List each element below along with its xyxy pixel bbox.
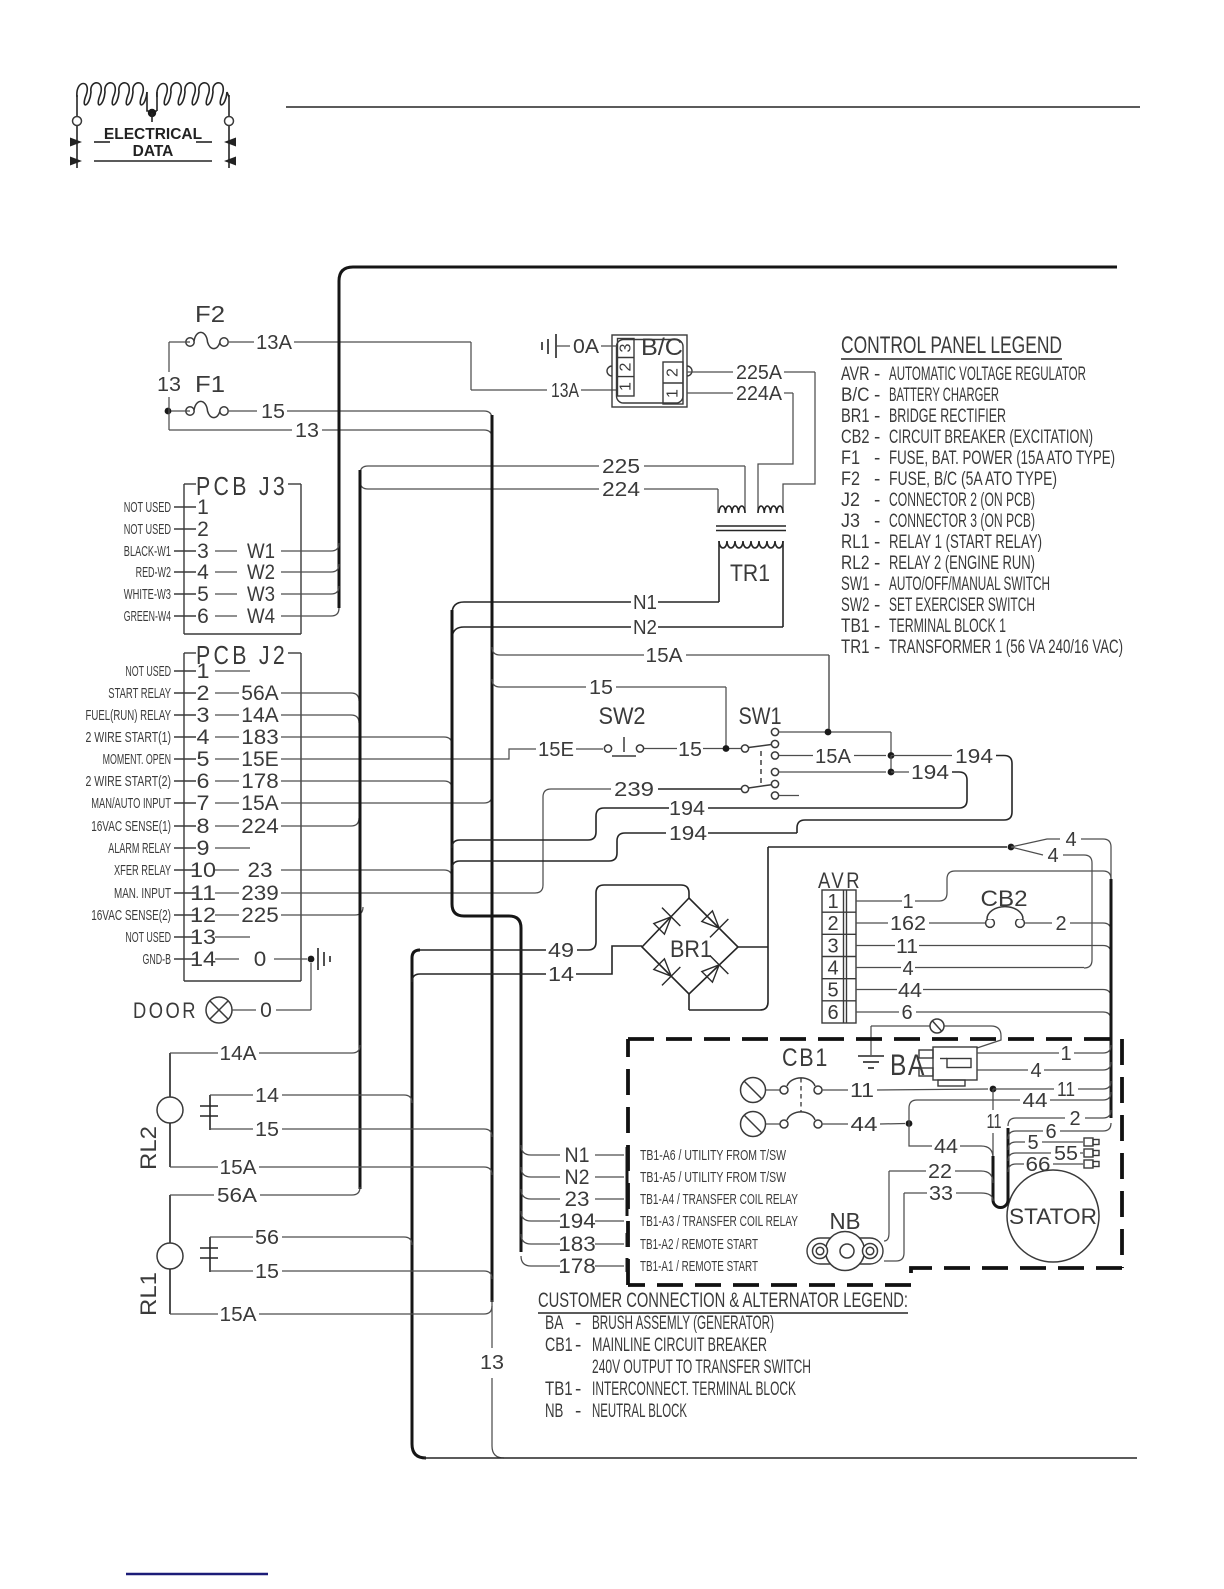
svg-text:12: 12	[190, 904, 216, 927]
svg-text:PCB J3: PCB J3	[196, 471, 288, 501]
svg-text:DOOR: DOOR	[133, 998, 198, 1023]
svg-text:4: 4	[902, 958, 913, 980]
svg-text:15A: 15A	[646, 645, 684, 667]
svg-text:8: 8	[197, 815, 210, 838]
svg-text:BA: BA	[545, 1313, 564, 1334]
svg-text:-: -	[874, 448, 880, 469]
svg-text:225: 225	[602, 456, 640, 478]
svg-text:GND-B: GND-B	[143, 951, 172, 968]
svg-text:DATA: DATA	[133, 143, 174, 160]
svg-text:F1: F1	[841, 448, 860, 469]
svg-text:224A: 224A	[736, 383, 783, 405]
svg-text:14: 14	[548, 964, 574, 986]
svg-text:16VAC SENSE(1): 16VAC SENSE(1)	[91, 818, 171, 835]
svg-text:NOT USED: NOT USED	[124, 499, 171, 516]
svg-text:RL1: RL1	[841, 532, 870, 553]
svg-text:5: 5	[1027, 1132, 1038, 1154]
svg-text:TR1: TR1	[841, 637, 870, 658]
svg-text:239: 239	[614, 779, 654, 801]
svg-text:TB1: TB1	[545, 1379, 573, 1400]
svg-text:INTERCONNECT. TERMINAL BLOCK: INTERCONNECT. TERMINAL BLOCK	[592, 1379, 796, 1400]
svg-text:CONNECTOR 3 (ON PCB): CONNECTOR 3 (ON PCB)	[889, 511, 1035, 532]
svg-text:BATTERY CHARGER: BATTERY CHARGER	[889, 385, 999, 406]
svg-text:SW1: SW1	[841, 574, 870, 595]
svg-text:1: 1	[618, 382, 635, 391]
svg-text:GREEN-W4: GREEN-W4	[124, 608, 171, 625]
svg-text:-: -	[874, 595, 880, 616]
svg-text:CB1: CB1	[782, 1044, 829, 1072]
svg-text:33: 33	[929, 1183, 953, 1205]
svg-text:W4: W4	[247, 605, 275, 628]
svg-text:2 WIRE START(2): 2 WIRE START(2)	[86, 773, 172, 790]
svg-text:FUSE, B/C (5A ATO TYPE): FUSE, B/C (5A ATO TYPE)	[889, 469, 1057, 490]
svg-text:2: 2	[1069, 1108, 1080, 1130]
svg-text:1: 1	[902, 891, 913, 913]
svg-text:194: 194	[669, 798, 705, 820]
svg-text:15: 15	[261, 401, 285, 423]
svg-text:-: -	[874, 427, 880, 448]
svg-text:1: 1	[197, 496, 209, 519]
svg-text:4: 4	[1030, 1060, 1041, 1082]
svg-text:TRANSFORMER 1 (56 VA 240/16 VA: TRANSFORMER 1 (56 VA 240/16 VAC)	[889, 637, 1123, 658]
svg-text:14: 14	[190, 948, 216, 971]
svg-text:CONTROL PANEL LEGEND: CONTROL PANEL LEGEND	[841, 332, 1062, 359]
svg-text:13: 13	[295, 420, 319, 442]
svg-text:BRIDGE RECTIFIER: BRIDGE RECTIFIER	[889, 406, 1006, 427]
svg-text:15A: 15A	[220, 1304, 258, 1326]
svg-text:STATOR: STATOR	[1009, 1204, 1097, 1229]
svg-text:2 WIRE START(1): 2 WIRE START(1)	[86, 729, 172, 746]
svg-text:7: 7	[197, 792, 210, 815]
svg-text:6: 6	[827, 1002, 838, 1024]
svg-text:23: 23	[565, 1188, 590, 1211]
svg-text:NEUTRAL BLOCK: NEUTRAL BLOCK	[592, 1401, 687, 1422]
svg-text:W3: W3	[247, 583, 275, 606]
svg-text:15E: 15E	[538, 739, 574, 761]
svg-text:RELAY 1 (START RELAY): RELAY 1 (START RELAY)	[889, 532, 1042, 553]
svg-text:AUTO/OFF/MANUAL SWITCH: AUTO/OFF/MANUAL SWITCH	[889, 574, 1050, 595]
svg-text:MOMENT. OPEN: MOMENT. OPEN	[103, 751, 171, 768]
svg-text:-: -	[874, 574, 880, 595]
svg-text:16VAC SENSE(2): 16VAC SENSE(2)	[91, 907, 171, 924]
svg-text:1: 1	[1060, 1043, 1071, 1065]
svg-text:1: 1	[665, 389, 682, 398]
svg-text:NOT USED: NOT USED	[125, 929, 171, 946]
svg-text:NB: NB	[545, 1401, 563, 1422]
svg-text:TB1-A3 / TRANSFER COIL RELAY: TB1-A3 / TRANSFER COIL RELAY	[640, 1213, 798, 1230]
svg-text:2: 2	[197, 518, 209, 541]
svg-text:-: -	[874, 469, 880, 490]
svg-text:194: 194	[955, 746, 993, 768]
svg-text:NB: NB	[830, 1208, 861, 1234]
svg-text:J3: J3	[841, 511, 860, 532]
svg-text:RED-W2: RED-W2	[136, 564, 171, 581]
svg-text:13A: 13A	[551, 380, 580, 402]
svg-text:RL1: RL1	[136, 1272, 161, 1316]
svg-text:NOT USED: NOT USED	[124, 521, 171, 538]
svg-text:-: -	[874, 511, 880, 532]
svg-text:240V OUTPUT TO TRANSFER SWITCH: 240V OUTPUT TO TRANSFER SWITCH	[592, 1357, 811, 1378]
svg-text:SET EXERCISER SWITCH: SET EXERCISER SWITCH	[889, 595, 1035, 616]
svg-text:9: 9	[197, 837, 210, 860]
svg-text:6: 6	[197, 770, 210, 793]
svg-text:2: 2	[197, 682, 210, 705]
svg-text:13A: 13A	[256, 332, 293, 354]
svg-text:-: -	[874, 616, 880, 637]
svg-text:5: 5	[197, 748, 210, 771]
svg-text:F1: F1	[195, 371, 225, 397]
svg-text:1: 1	[197, 660, 210, 683]
svg-text:11: 11	[896, 936, 918, 958]
svg-text:TR1: TR1	[730, 560, 770, 587]
svg-text:RL2: RL2	[136, 1126, 161, 1170]
svg-text:-: -	[874, 553, 880, 574]
svg-text:1: 1	[827, 891, 838, 913]
svg-text:BA: BA	[890, 1049, 926, 1082]
svg-text:RELAY 2 (ENGINE RUN): RELAY 2 (ENGINE RUN)	[889, 553, 1035, 574]
svg-text:NOT USED: NOT USED	[125, 663, 171, 680]
svg-text:AUTOMATIC VOLTAGE REGULATOR: AUTOMATIC VOLTAGE REGULATOR	[889, 364, 1086, 385]
svg-text:CIRCUIT BREAKER (EXCITATION): CIRCUIT BREAKER (EXCITATION)	[889, 427, 1093, 448]
svg-text:TB1-A1 / REMOTE START: TB1-A1 / REMOTE START	[640, 1258, 758, 1275]
svg-text:194: 194	[558, 1210, 596, 1233]
svg-text:224: 224	[241, 815, 279, 838]
svg-text:56A: 56A	[217, 1185, 258, 1207]
svg-text:-: -	[575, 1313, 581, 1334]
svg-text:N1: N1	[565, 1144, 590, 1167]
svg-text:13: 13	[157, 374, 181, 396]
svg-text:TB1-A6 / UTILITY FROM T/SW: TB1-A6 / UTILITY FROM T/SW	[640, 1147, 787, 1164]
svg-text:MAINLINE CIRCUIT BREAKER: MAINLINE CIRCUIT BREAKER	[592, 1335, 767, 1356]
svg-text:15: 15	[589, 677, 613, 699]
svg-text:55: 55	[1054, 1143, 1078, 1165]
svg-text:F2: F2	[195, 301, 225, 327]
svg-text:11: 11	[850, 1080, 874, 1102]
svg-text:2: 2	[665, 368, 682, 377]
svg-text:4: 4	[197, 726, 210, 749]
svg-text:15E: 15E	[241, 748, 279, 771]
svg-text:FUEL(RUN) RELAY: FUEL(RUN) RELAY	[86, 707, 172, 724]
svg-text:183: 183	[558, 1233, 596, 1256]
svg-text:TB1-A2 / REMOTE START: TB1-A2 / REMOTE START	[640, 1236, 758, 1253]
svg-text:3: 3	[197, 704, 210, 727]
svg-text:10: 10	[190, 859, 216, 882]
svg-text:TB1: TB1	[841, 616, 870, 637]
svg-text:ALARM RELAY: ALARM RELAY	[108, 840, 171, 857]
svg-text:49: 49	[548, 940, 574, 962]
svg-text:0: 0	[260, 999, 272, 1022]
svg-text:W1: W1	[247, 540, 275, 563]
svg-text:-: -	[874, 364, 880, 385]
svg-text:13: 13	[190, 926, 216, 949]
svg-text:ELECTRICAL: ELECTRICAL	[104, 126, 202, 143]
svg-text:13: 13	[480, 1352, 504, 1374]
svg-text:SW2: SW2	[841, 595, 870, 616]
svg-text:MAN/AUTO INPUT: MAN/AUTO INPUT	[91, 795, 171, 812]
svg-text:14A: 14A	[220, 1043, 258, 1065]
svg-text:B/C: B/C	[841, 385, 870, 406]
svg-text:15: 15	[678, 739, 702, 761]
svg-text:3: 3	[827, 936, 838, 958]
svg-text:3: 3	[197, 540, 209, 563]
svg-text:BR1: BR1	[841, 406, 870, 427]
svg-text:15A: 15A	[815, 746, 852, 768]
svg-text:11: 11	[190, 882, 216, 905]
svg-text:56A: 56A	[241, 682, 279, 705]
svg-text:14: 14	[255, 1085, 279, 1107]
svg-text:F2: F2	[841, 469, 860, 490]
svg-text:XFER RELAY: XFER RELAY	[114, 862, 171, 879]
svg-text:AVR: AVR	[818, 868, 862, 893]
svg-text:CB2: CB2	[841, 427, 870, 448]
svg-text:-: -	[874, 406, 880, 427]
svg-text:225A: 225A	[736, 362, 783, 384]
svg-text:14A: 14A	[241, 704, 279, 727]
svg-text:194: 194	[911, 762, 949, 784]
svg-text:4: 4	[1065, 829, 1076, 851]
svg-text:CUSTOMER CONNECTION & ALTERNAT: CUSTOMER CONNECTION & ALTERNATOR LEGEND:	[538, 1289, 908, 1312]
svg-text:SW2: SW2	[599, 703, 646, 730]
svg-text:15A: 15A	[220, 1157, 258, 1179]
svg-text:0: 0	[254, 948, 267, 971]
svg-text:22: 22	[928, 1161, 952, 1183]
svg-text:15: 15	[255, 1261, 279, 1283]
svg-text:N2: N2	[633, 617, 657, 639]
svg-text:-: -	[575, 1335, 581, 1356]
svg-text:2: 2	[827, 913, 838, 935]
svg-text:START RELAY: START RELAY	[108, 685, 171, 702]
svg-text:6: 6	[901, 1002, 912, 1024]
svg-text:44: 44	[934, 1136, 958, 1158]
svg-text:224: 224	[602, 479, 640, 501]
svg-text:MAN. INPUT: MAN. INPUT	[114, 885, 171, 902]
svg-text:162: 162	[890, 913, 926, 935]
svg-text:194: 194	[669, 823, 707, 845]
svg-text:2: 2	[618, 362, 635, 371]
svg-text:4: 4	[197, 561, 209, 584]
svg-text:44: 44	[1023, 1090, 1048, 1112]
svg-text:-: -	[575, 1379, 581, 1400]
svg-text:6: 6	[197, 605, 209, 628]
svg-text:178: 178	[558, 1255, 596, 1278]
svg-text:PCB J2: PCB J2	[196, 640, 288, 670]
svg-text:J2: J2	[841, 490, 860, 511]
svg-text:CONNECTOR 2 (ON PCB): CONNECTOR 2 (ON PCB)	[889, 490, 1035, 511]
svg-text:TB1-A5 / UTILITY FROM T/SW: TB1-A5 / UTILITY FROM T/SW	[640, 1169, 787, 1186]
svg-text:11: 11	[1057, 1079, 1075, 1101]
svg-text:23: 23	[248, 859, 273, 882]
svg-text:4: 4	[827, 958, 838, 980]
svg-text:4: 4	[1047, 845, 1058, 867]
svg-text:WHITE-W3: WHITE-W3	[124, 586, 171, 603]
svg-text:TERMINAL BLOCK 1: TERMINAL BLOCK 1	[889, 616, 1006, 637]
svg-text:183: 183	[241, 726, 279, 749]
svg-text:225: 225	[241, 904, 279, 927]
svg-text:5: 5	[827, 980, 838, 1002]
svg-text:178: 178	[241, 770, 279, 793]
svg-text:239: 239	[241, 882, 279, 905]
svg-text:44: 44	[898, 980, 922, 1002]
svg-text:6: 6	[1045, 1121, 1056, 1143]
svg-text:0A: 0A	[573, 336, 600, 358]
svg-text:B/C: B/C	[641, 334, 683, 361]
svg-text:N2: N2	[565, 1166, 590, 1189]
svg-text:-: -	[874, 637, 880, 658]
svg-text:15A: 15A	[241, 792, 279, 815]
svg-text:FUSE, BAT. POWER (15A ATO TYPE: FUSE, BAT. POWER (15A ATO TYPE)	[889, 448, 1115, 469]
svg-text:-: -	[874, 490, 880, 511]
svg-text:-: -	[575, 1401, 581, 1422]
svg-text:-: -	[874, 532, 880, 553]
svg-text:11: 11	[987, 1111, 1002, 1133]
svg-text:RL2: RL2	[841, 553, 870, 574]
svg-text:44: 44	[851, 1114, 878, 1136]
svg-text:15: 15	[255, 1119, 279, 1141]
svg-text:3: 3	[618, 343, 635, 352]
svg-text:SW1: SW1	[739, 703, 782, 730]
svg-text:BLACK-W1: BLACK-W1	[124, 543, 171, 560]
svg-text:N1: N1	[633, 592, 657, 614]
svg-text:CB1: CB1	[545, 1335, 573, 1356]
svg-text:-: -	[874, 385, 880, 406]
svg-text:66: 66	[1026, 1154, 1051, 1176]
svg-text:AVR: AVR	[841, 364, 870, 385]
svg-text:5: 5	[197, 583, 209, 606]
svg-text:2: 2	[1055, 913, 1066, 935]
svg-text:BRUSH ASSEMLY (GENERATOR): BRUSH ASSEMLY (GENERATOR)	[592, 1313, 774, 1334]
svg-text:BR1: BR1	[670, 936, 712, 963]
svg-text:56: 56	[255, 1227, 279, 1249]
svg-text:W2: W2	[247, 561, 275, 584]
svg-text:TB1-A4 / TRANSFER COIL RELAY: TB1-A4 / TRANSFER COIL RELAY	[640, 1191, 798, 1208]
